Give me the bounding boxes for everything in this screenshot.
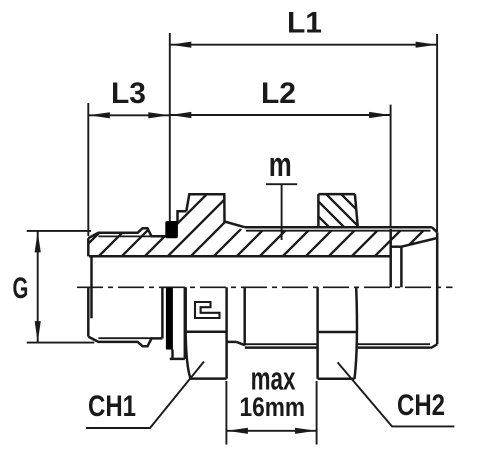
svg-text:L1: L1	[287, 7, 322, 40]
body hex facet edge	[186, 330, 226, 333]
locknut facet edge lower	[318, 331, 357, 334]
seal retaining step	[178, 211, 187, 221]
svg-text:CH2: CH2	[397, 387, 445, 421]
locknut left face lower	[316, 287, 319, 379]
body hex corner arc left	[186, 336, 191, 379]
body hex section profile	[186, 194, 244, 227]
seal edge view (black band)	[166, 288, 173, 350]
svg-text:CH1: CH1	[88, 388, 136, 422]
L2 dimension	[390, 105, 392, 226]
svg-text:L2: L2	[261, 77, 296, 110]
svg-text:max: max	[251, 360, 296, 396]
end chamfer top right	[432, 227, 437, 232]
seal (black) section square	[165, 221, 178, 238]
L3 dimension	[87, 103, 89, 236]
bulkhead thread root line lower left span	[245, 343, 318, 345]
washer bottom edge	[170, 358, 185, 361]
bulkhead thread crest line lower left span	[245, 346, 318, 349]
L1 dimension	[169, 33, 171, 221]
end chamfer bottom right	[431, 344, 438, 348]
24 degree cone	[401, 238, 437, 247]
bore chamfer edge at left end	[90, 256, 93, 318]
svg-text:16mm: 16mm	[240, 392, 306, 422]
centerline	[77, 286, 453, 288]
left end face	[87, 238, 90, 256]
bulkhead thread crest line lower right span	[358, 346, 431, 349]
neck line right of hex	[227, 341, 237, 344]
locknut chamfer arc right	[355, 287, 357, 379]
locknut section left edge	[317, 194, 320, 227]
male stud thread root line upper	[98, 235, 152, 237]
forge mark glyph on hex face	[195, 302, 220, 318]
body hex chamfer boundary / bulkhead face	[225, 287, 228, 378]
counterbore face	[389, 229, 392, 287]
seal groove face	[161, 287, 164, 338]
counterbore ledge	[391, 245, 402, 248]
locknut section right edge	[355, 194, 358, 227]
bulkhead thread crest line upper	[245, 226, 432, 229]
washer left edge below seal	[171, 350, 174, 359]
cone abutment edge	[400, 247, 403, 288]
washer right edge	[184, 287, 187, 359]
body hex bottom edge	[191, 377, 227, 380]
male stud thread root line lower	[98, 337, 152, 339]
bore line	[89, 255, 391, 258]
thread lead chamfer lower	[237, 342, 245, 345]
male stud thread upper profile	[88, 228, 166, 238]
G dimension	[27, 230, 91, 232]
right end face	[436, 232, 439, 344]
left end face lower	[87, 287, 90, 336]
svg-text:L3: L3	[111, 77, 146, 110]
body hex right end face	[243, 287, 246, 345]
svg-text:G: G	[13, 272, 29, 305]
body hex left face	[184, 287, 187, 336]
max 16mm dimension	[225, 381, 227, 445]
section hatching of locknut	[290, 188, 396, 234]
male stud thread lower profile	[88, 337, 162, 347]
locknut bottom edge	[318, 378, 355, 381]
svg-text:m: m	[269, 147, 292, 184]
locknut section top	[318, 193, 355, 196]
bulkhead thread root line upper	[246, 230, 431, 232]
bulkhead thread root line lower right span	[358, 343, 430, 345]
section hatching of fitting body	[72, 188, 500, 260]
